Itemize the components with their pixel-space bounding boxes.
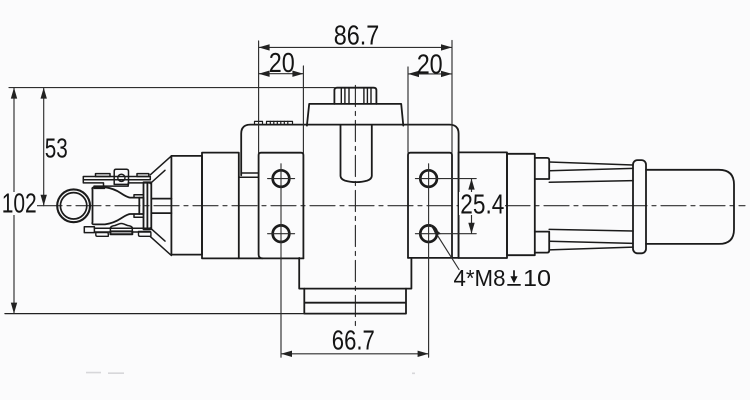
- right plate hole bottom: [415, 225, 440, 242]
- dimension 66.7: [281, 257, 429, 357]
- dimension 102: [13, 88, 15, 314]
- clevis neck band: [139, 182, 151, 229]
- text 102: [1, 192, 37, 215]
- roller R (end view circles): [57, 189, 90, 222]
- stem channel: [341, 126, 372, 183]
- svg-text:25.4: 25.4: [460, 189, 504, 220]
- right hole centerline: [428, 164, 430, 257]
- body collar ledges: [239, 173, 259, 177]
- svg-text:4*M8: 4*M8: [454, 265, 506, 291]
- dimension 53: [43, 88, 45, 206]
- dimension 86.7: [259, 41, 452, 153]
- boot band: [633, 160, 646, 253]
- vertical centerline: [354, 86, 356, 330]
- left hole centerline: [280, 164, 282, 257]
- right plate hole top: [415, 170, 440, 187]
- depth symbol: [507, 270, 520, 285]
- push rod: [151, 199, 171, 214]
- top boss trapezoid: [307, 104, 403, 126]
- clevis bell: [92, 187, 143, 224]
- horizontal centerline: [37, 205, 745, 207]
- valve body: [239, 125, 459, 259]
- foot block: [304, 289, 406, 314]
- boot top collar: [535, 158, 549, 179]
- body top ribbed strip: [255, 121, 293, 124]
- svg-text:20: 20: [417, 49, 443, 80]
- bottom gusset: [150, 228, 171, 256]
- bottom extension line: [5, 313, 304, 315]
- left plate hole bottom: [268, 225, 295, 242]
- leader 4*M8: [432, 226, 460, 270]
- svg-text:20: 20: [269, 47, 295, 78]
- clevis neck flange: [134, 195, 144, 217]
- dimension 20 right: [408, 67, 452, 152]
- bottom clamp assembly: [84, 224, 151, 237]
- faint watermark marks: [86, 372, 415, 375]
- svg-text:53: 53: [45, 133, 68, 164]
- boot bottom collar: [535, 232, 549, 253]
- svg-text:102: 102: [2, 188, 37, 219]
- waist step: [299, 258, 411, 289]
- boot end cone: [646, 170, 734, 244]
- right mounting plate: [408, 153, 452, 258]
- left plate hole top: [268, 170, 295, 187]
- svg-text:86.7: 86.7: [334, 20, 380, 51]
- svg-text:66.7: 66.7: [332, 325, 375, 356]
- dimension 20 left: [259, 66, 304, 153]
- cylinder section A: [171, 156, 202, 255]
- left mounting plate: [259, 153, 304, 259]
- top extension line (overall height datum): [9, 87, 334, 89]
- section D: [507, 154, 535, 255]
- dimension 25.4: [439, 179, 476, 234]
- section C: [459, 152, 507, 258]
- ribbed adjustment block: [334, 88, 376, 104]
- svg-text:10: 10: [523, 265, 551, 291]
- cylinder section B: [202, 153, 239, 259]
- text 25.4: [459, 192, 505, 215]
- top clamp assembly: [83, 169, 150, 188]
- top gusset: [150, 156, 171, 184]
- boot surface lines: [549, 162, 633, 250]
